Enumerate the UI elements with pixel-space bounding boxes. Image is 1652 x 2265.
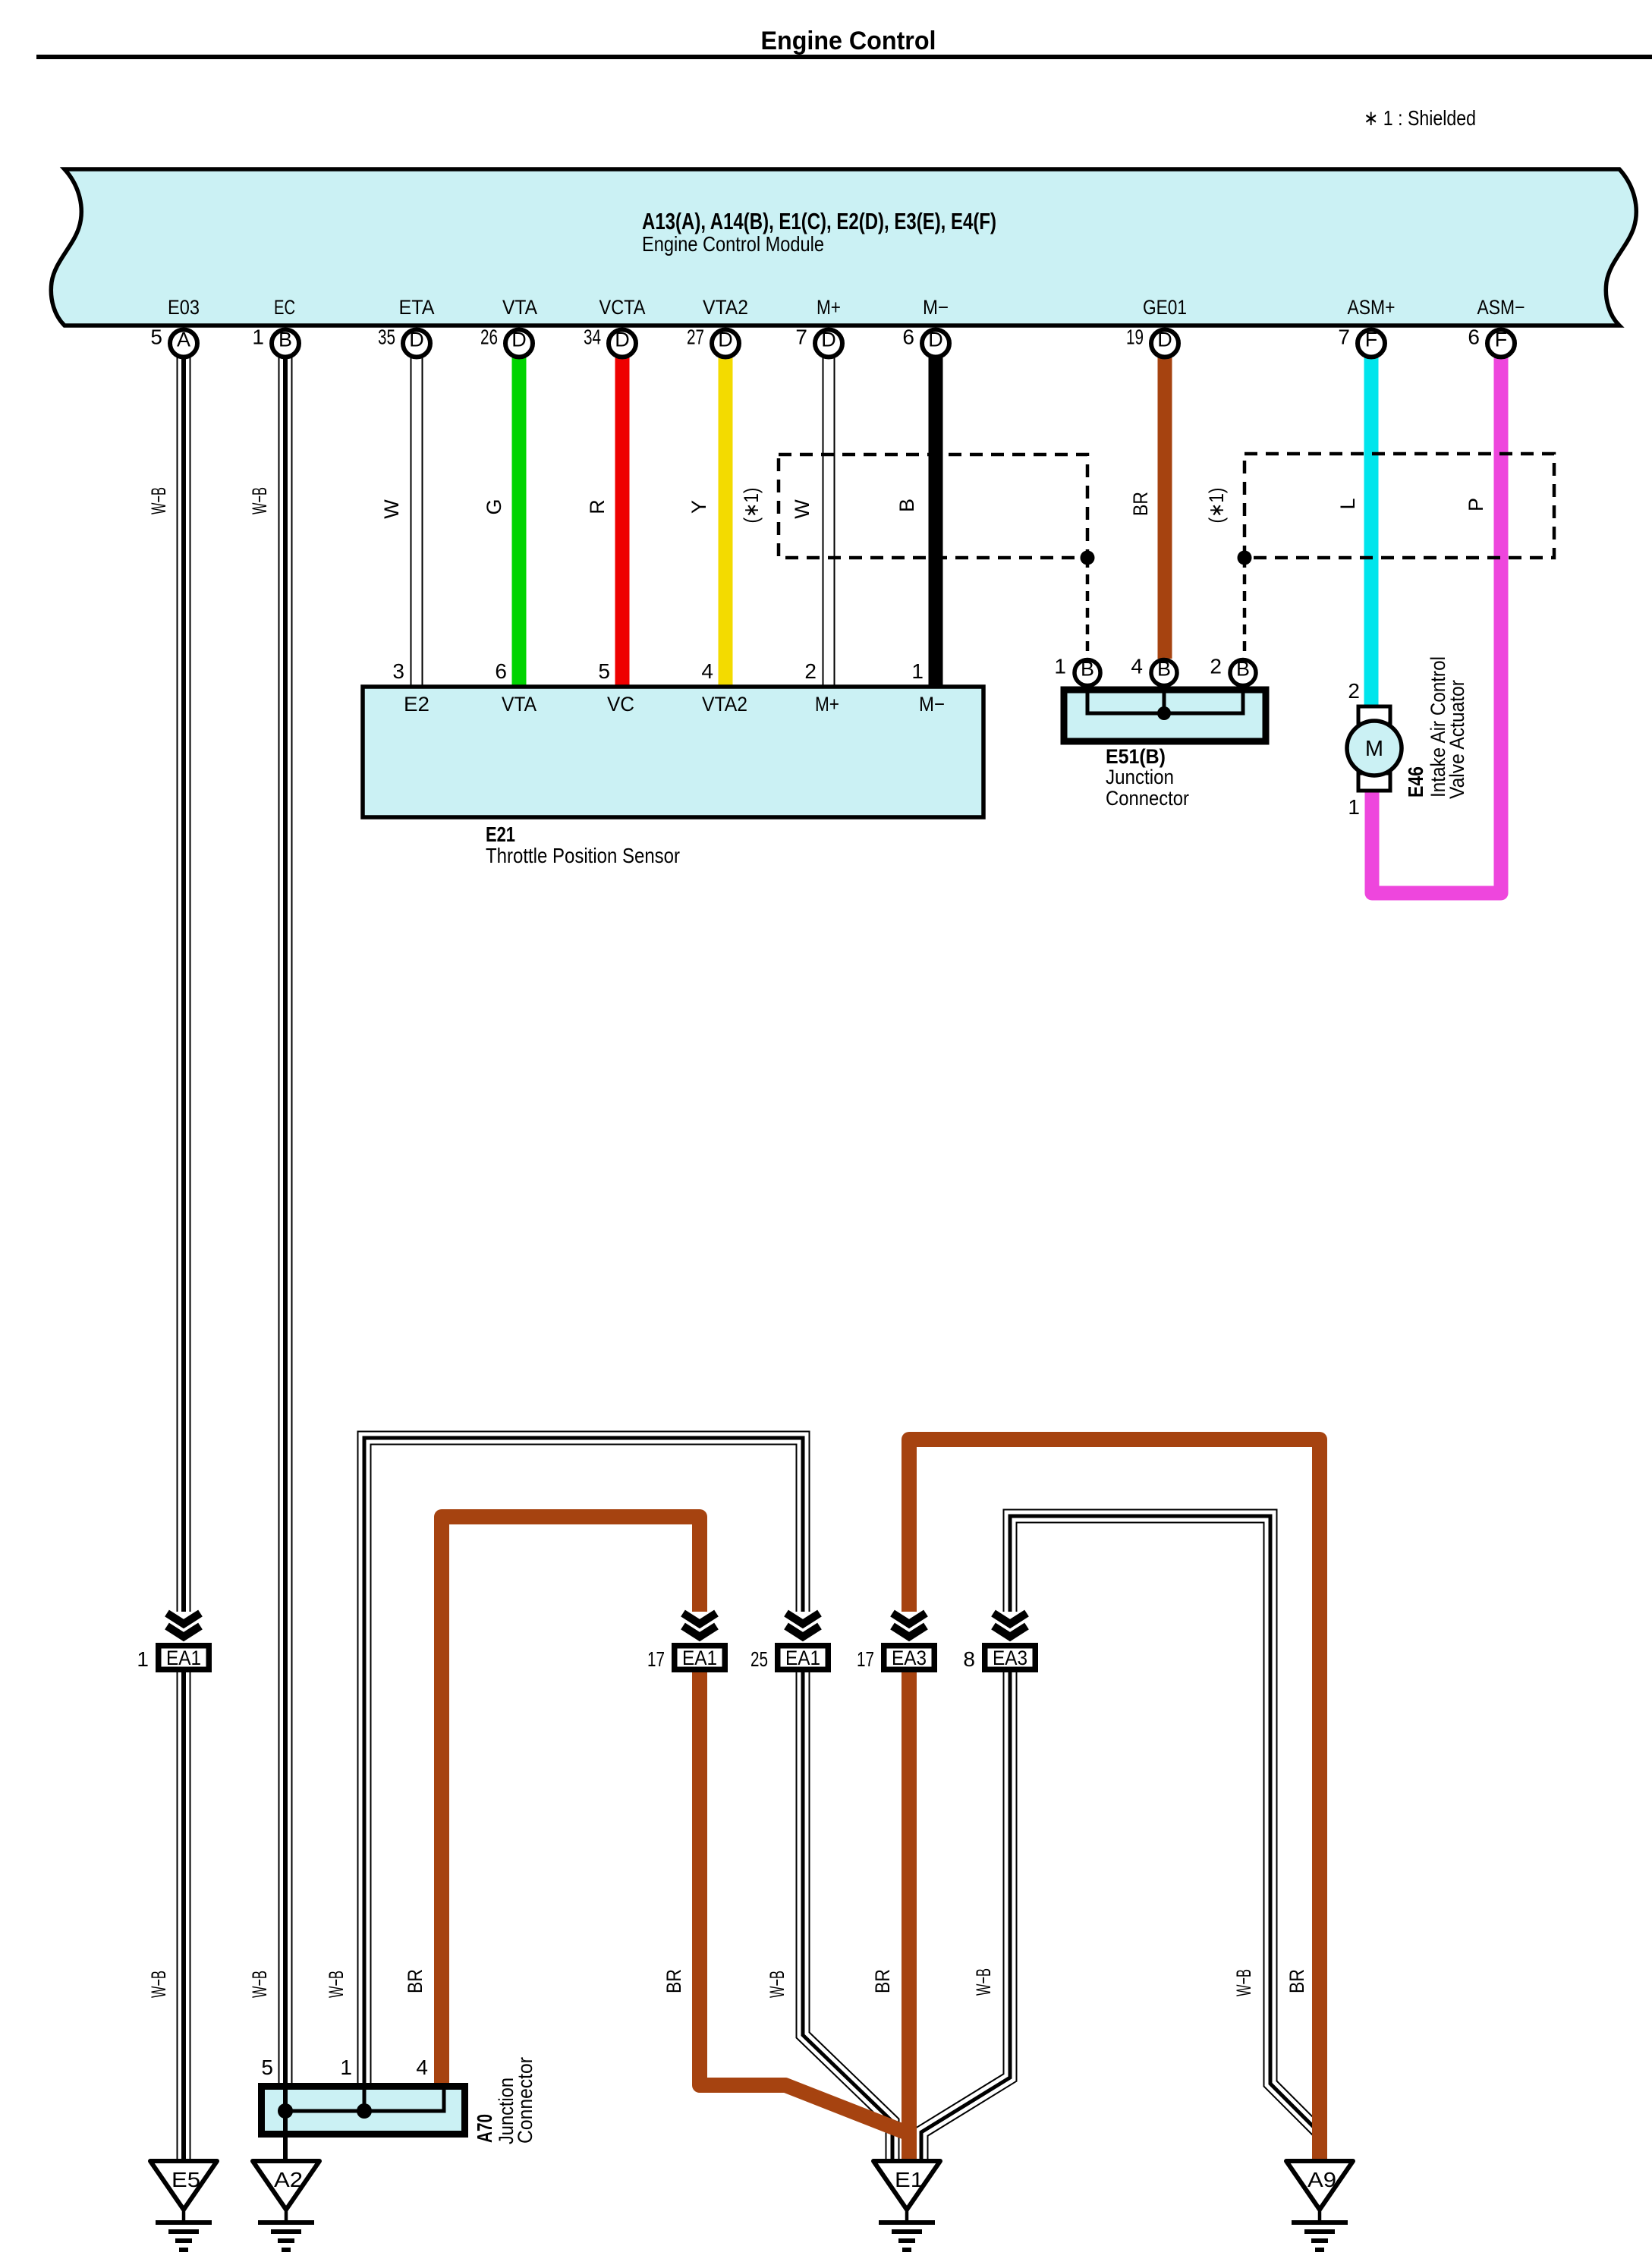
svg-text:G: G — [483, 499, 505, 514]
svg-text:D: D — [511, 329, 527, 351]
svg-text:8: 8 — [963, 1647, 975, 1671]
svg-text:EA3: EA3 — [993, 1647, 1027, 1669]
svg-text:EA1: EA1 — [166, 1647, 201, 1669]
wire E03 W-B to E5 — [177, 343, 191, 2161]
ECM pin 7(F) ASM+ — [1338, 326, 1385, 357]
svg-text:M: M — [1365, 737, 1383, 761]
junction connector E51(B) box — [1064, 690, 1266, 741]
svg-text:E5: E5 — [171, 2168, 200, 2191]
shield drain wire to E51 pin 1 — [1086, 558, 1090, 658]
svg-text:27: 27 — [687, 326, 704, 349]
ECM pin 19(D) GE01 — [1126, 326, 1178, 357]
svg-text:A13(A), A14(B), E1(C), E2(D),: A13(A), A14(B), E1(C), E2(D), E3(E), E4(… — [642, 208, 996, 234]
svg-text:Valve Actuator: Valve Actuator — [1446, 680, 1468, 799]
svg-text:M−: M− — [919, 693, 945, 716]
shield drain wire to E51 pin 2 — [1243, 558, 1247, 658]
throttle position sensor E21 box — [363, 687, 983, 817]
svg-text:EA1: EA1 — [785, 1647, 820, 1669]
svg-text:19: 19 — [1126, 326, 1144, 349]
svg-text:5: 5 — [261, 2056, 273, 2079]
motor E46 intake air control valve actuator — [1347, 706, 1402, 791]
svg-text:GE01: GE01 — [1143, 296, 1187, 319]
svg-text:A: A — [177, 329, 190, 351]
svg-text:W−B: W−B — [248, 1971, 271, 1998]
svg-text:B: B — [1157, 658, 1171, 681]
svg-text:Junction: Junction — [1106, 766, 1174, 788]
svg-text:1: 1 — [340, 2056, 352, 2079]
svg-text:2: 2 — [1348, 679, 1360, 703]
svg-text:F: F — [1495, 329, 1508, 351]
svg-text:A70: A70 — [473, 2114, 496, 2143]
svg-text:Connector: Connector — [514, 2057, 537, 2144]
svg-text:A9: A9 — [1307, 2168, 1336, 2191]
svg-text:B: B — [895, 499, 918, 512]
wire W-B loop A70 pin1 to EA1-25 to E1 — [364, 1438, 892, 2160]
wire W-B loop EA3-8 to E1 and to A9 — [921, 1516, 1317, 2160]
svg-text:4: 4 — [416, 2056, 428, 2079]
A70 internal wire EC to A2 — [283, 2086, 288, 2160]
svg-text:Connector: Connector — [1106, 787, 1189, 810]
wire M+ W to TPS — [823, 343, 835, 687]
svg-text:W−B: W−B — [972, 1968, 995, 1996]
E51 pin 4(B) — [1131, 655, 1177, 686]
svg-text:W−B: W−B — [766, 1971, 788, 1998]
svg-text:D: D — [409, 329, 424, 351]
svg-text:4: 4 — [1131, 655, 1143, 678]
svg-text:1: 1 — [911, 659, 924, 683]
junction dot shield 1 — [1081, 551, 1095, 565]
svg-text:A2: A2 — [274, 2168, 303, 2191]
svg-text:(∗1): (∗1) — [740, 488, 763, 524]
svg-text:BR: BR — [1129, 492, 1152, 516]
svg-text:EC: EC — [274, 296, 295, 319]
svg-text:7: 7 — [795, 326, 807, 349]
svg-text:E1: E1 — [895, 2168, 924, 2191]
svg-text:R: R — [586, 499, 609, 514]
svg-text:EA1: EA1 — [682, 1647, 717, 1669]
svg-text:VTA2: VTA2 — [702, 693, 747, 716]
shield box (*1) around M+/M- — [779, 455, 1087, 558]
svg-text:W−B: W−B — [1232, 1969, 1255, 1996]
svg-text:E03: E03 — [168, 296, 200, 319]
junction connector A70 box — [262, 2087, 465, 2134]
ECM pin 34(D) VCTA — [584, 326, 636, 357]
ECM pin 26(D) VTA — [480, 326, 533, 357]
E51 pin 1(B) — [1054, 655, 1100, 686]
ECM pin 5(A) E03 — [150, 326, 197, 357]
svg-text:1: 1 — [1054, 655, 1066, 678]
ground E5 — [150, 2161, 217, 2250]
svg-text:B: B — [1081, 658, 1094, 681]
title underline — [36, 55, 1652, 59]
svg-text:EA3: EA3 — [892, 1647, 927, 1669]
ECM pin 6(F) ASM- — [1468, 326, 1515, 357]
svg-text:E2: E2 — [404, 693, 430, 716]
svg-text:BR: BR — [871, 1969, 894, 1993]
svg-text:E46: E46 — [1404, 766, 1427, 797]
svg-text:VC: VC — [607, 693, 634, 716]
ground E1 — [873, 2161, 940, 2250]
svg-text:W−B: W−B — [147, 487, 170, 514]
svg-text:D: D — [615, 329, 630, 351]
svg-text:∗ 1 : Shielded: ∗ 1 : Shielded — [1364, 106, 1476, 130]
svg-text:L: L — [1336, 498, 1359, 509]
svg-text:Y: Y — [688, 500, 710, 514]
svg-text:Throttle Position Sensor: Throttle Position Sensor — [486, 844, 680, 867]
wire BR loop EA3-17 E1 to A9 — [909, 1439, 1320, 2161]
svg-text:4: 4 — [701, 659, 713, 683]
svg-text:F: F — [1365, 329, 1378, 351]
svg-text:(∗1): (∗1) — [1205, 488, 1228, 524]
svg-text:BR: BR — [662, 1969, 685, 1993]
ECM pin 1(B) EC — [252, 326, 299, 357]
svg-text:W: W — [380, 499, 403, 519]
svg-text:W−B: W−B — [147, 1971, 170, 1998]
svg-text:Engine Control: Engine Control — [761, 27, 936, 55]
svg-text:3: 3 — [392, 659, 404, 683]
svg-text:ETA: ETA — [399, 296, 435, 319]
svg-text:1: 1 — [1348, 795, 1360, 819]
svg-text:M+: M+ — [817, 296, 841, 319]
svg-text:ASM−: ASM− — [1477, 296, 1525, 319]
junction dot shield 2 — [1238, 551, 1252, 565]
svg-text:D: D — [1157, 329, 1172, 351]
svg-text:17: 17 — [647, 1647, 665, 1671]
svg-text:VCTA: VCTA — [599, 296, 646, 319]
svg-text:34: 34 — [584, 326, 601, 349]
svg-text:VTA: VTA — [502, 693, 537, 716]
ECM pin 35(D) ETA — [378, 326, 430, 357]
wire BR loop A70 pin4 to EA1-17 to E1 — [442, 1517, 909, 2134]
svg-text:26: 26 — [480, 326, 498, 349]
E51 pin 2(B) — [1210, 655, 1256, 686]
wire ASM- P magenta to motor — [1372, 343, 1501, 893]
svg-text:P: P — [1465, 498, 1487, 511]
svg-text:E51(B): E51(B) — [1106, 745, 1166, 768]
svg-text:6: 6 — [1468, 326, 1480, 349]
connector EA1 pin 1 — [137, 1612, 209, 1671]
svg-text:E21: E21 — [486, 823, 515, 846]
E51 internal bus — [1087, 691, 1243, 713]
svg-text:BR: BR — [1285, 1969, 1308, 1993]
A70 internal bus — [285, 2088, 444, 2111]
svg-text:5: 5 — [598, 659, 610, 683]
svg-text:7: 7 — [1338, 326, 1350, 349]
svg-text:B: B — [1236, 658, 1250, 681]
svg-text:1: 1 — [137, 1647, 149, 1671]
svg-text:B: B — [278, 329, 292, 351]
svg-text:Engine Control Module: Engine Control Module — [642, 232, 824, 256]
svg-text:1: 1 — [252, 326, 264, 349]
wire VTA2 Y yellow — [719, 343, 733, 687]
svg-text:M−: M− — [923, 296, 949, 319]
svg-text:BR: BR — [404, 1969, 426, 1993]
shield box (*1) around ASM+/ASM- — [1245, 454, 1554, 558]
svg-text:D: D — [821, 329, 836, 351]
connector EA3 pin 17 — [857, 1612, 934, 1671]
ECM pin 6(D) M- — [902, 326, 949, 357]
wire ETA W to TPS E2 — [411, 343, 423, 687]
svg-text:VTA2: VTA2 — [703, 296, 748, 319]
connector EA3 pin 8 — [963, 1612, 1035, 1671]
svg-text:6: 6 — [495, 659, 507, 683]
A70 internal junction dots — [278, 2103, 293, 2119]
wire M- B black — [929, 343, 943, 687]
wire EC W-B to A70 pin 5 — [278, 343, 293, 2083]
ground A2 — [253, 2161, 319, 2250]
wire VTA G green — [512, 343, 527, 687]
svg-text:ASM+: ASM+ — [1348, 296, 1396, 319]
connector EA1 pin 17 — [647, 1612, 725, 1671]
svg-text:2: 2 — [804, 659, 817, 683]
svg-text:VTA: VTA — [502, 296, 537, 319]
svg-text:25: 25 — [750, 1647, 768, 1671]
svg-text:M+: M+ — [815, 693, 839, 716]
ECM pin 7(D) M+ — [795, 326, 842, 357]
svg-text:D: D — [928, 329, 943, 351]
svg-text:6: 6 — [902, 326, 914, 349]
connector EA1 pin 25 — [750, 1612, 828, 1671]
svg-text:D: D — [718, 329, 733, 351]
svg-text:W−B: W−B — [248, 487, 271, 514]
ECM pin 27(D) VTA2 — [687, 326, 739, 357]
svg-text:35: 35 — [378, 326, 395, 349]
svg-text:17: 17 — [857, 1647, 874, 1671]
wire ASM+ L cyan to motor — [1364, 343, 1379, 708]
svg-text:2: 2 — [1210, 655, 1222, 678]
wire GE01 BR brown to E51 pin 4 — [1158, 343, 1172, 659]
svg-text:5: 5 — [150, 326, 162, 349]
ground A9 — [1286, 2161, 1353, 2250]
E51 internal junction dot — [1157, 706, 1171, 720]
ECM module A13/A14/E1-E4 box — [51, 169, 1636, 326]
wire VCTA R red — [615, 343, 630, 687]
svg-text:W−B: W−B — [325, 1971, 348, 1998]
svg-text:W: W — [791, 499, 813, 519]
